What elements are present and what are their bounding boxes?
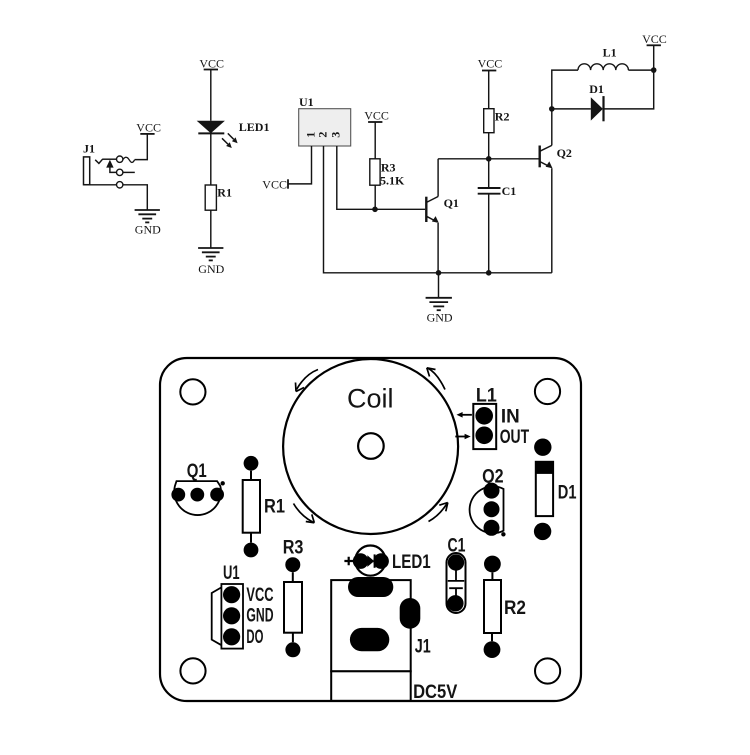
wire <box>488 71 490 109</box>
mounting hole top-right <box>535 379 560 404</box>
wire <box>488 133 490 159</box>
wire <box>552 108 591 110</box>
power VCC (R2) <box>478 57 503 71</box>
wire <box>552 70 578 109</box>
wire <box>120 171 135 173</box>
IC U1 <box>299 95 351 146</box>
wire <box>210 210 212 248</box>
svg-text:D1: D1 <box>558 482 577 503</box>
svg-text:GND: GND <box>246 606 273 627</box>
svg-text:R3: R3 <box>283 537 304 558</box>
svg-text:OUT: OUT <box>500 427 530 448</box>
power VCC (LED1) <box>199 56 224 70</box>
svg-text:LED1: LED1 <box>239 120 270 134</box>
wire <box>604 70 654 109</box>
wire <box>628 69 653 71</box>
ground GND (J1) <box>135 210 162 236</box>
wire <box>437 223 439 273</box>
wire <box>135 134 148 160</box>
svg-text:VCC: VCC <box>364 109 389 123</box>
wire <box>488 195 490 273</box>
LED LED1 (PCB) <box>344 546 431 576</box>
svg-text:2: 2 <box>316 132 330 138</box>
svg-text:R2: R2 <box>504 598 526 619</box>
svg-text:J1: J1 <box>83 142 95 156</box>
svg-text:VCC: VCC <box>136 120 161 134</box>
node junction <box>436 270 442 276</box>
svg-text:Q1: Q1 <box>444 196 459 210</box>
ground GND (main) <box>426 298 453 325</box>
wire <box>653 45 655 70</box>
svg-text:VCC: VCC <box>199 56 224 70</box>
node junction <box>549 106 555 112</box>
svg-text:Q2: Q2 <box>557 146 572 160</box>
wire <box>551 168 553 273</box>
arrow OUT <box>455 434 470 440</box>
resistor R3 (PCB) <box>283 537 304 657</box>
ground GND (LED1) <box>198 248 225 276</box>
svg-text:Coil: Coil <box>347 384 394 414</box>
wire <box>437 159 439 197</box>
svg-text:IN: IN <box>501 407 520 428</box>
wire <box>438 158 539 160</box>
transistor Q1 (PCB) <box>171 461 224 515</box>
capacitor C1 <box>478 184 517 198</box>
svg-text:R2: R2 <box>495 109 510 123</box>
diode D1 <box>589 82 604 121</box>
wire <box>84 185 148 210</box>
svg-text:GND: GND <box>427 310 453 324</box>
resistor R3 <box>370 159 396 185</box>
power VCC (R3) <box>364 109 389 123</box>
svg-text:DC5V: DC5V <box>413 682 457 703</box>
wire <box>374 122 376 159</box>
mounting hole top-left <box>180 379 205 404</box>
wire <box>488 159 490 187</box>
resistor R2 <box>484 109 510 133</box>
capacitor C1 (PCB) <box>447 535 466 613</box>
arrow coil bottom-right <box>429 503 448 522</box>
wire <box>210 70 212 121</box>
PCB board outline <box>160 358 581 701</box>
transistor Q2 (PCB) <box>470 466 506 536</box>
mounting hole bottom-left <box>180 658 205 683</box>
wire <box>551 109 553 145</box>
wire <box>324 146 552 273</box>
svg-text:VCC: VCC <box>642 32 667 46</box>
transistor Q2 <box>540 145 572 168</box>
wire <box>288 146 312 184</box>
power VCC (L1) <box>642 32 667 46</box>
svg-text:GND: GND <box>135 222 161 236</box>
power VCC (U1 pin1) <box>262 177 288 191</box>
svg-text:DO: DO <box>246 627 263 648</box>
resistor R2 (PCB) <box>484 556 526 658</box>
svg-text:3: 3 <box>329 132 343 138</box>
connector L1 (PCB) <box>473 386 497 450</box>
svg-text:VCC: VCC <box>478 57 503 71</box>
svg-text:C1: C1 <box>502 184 517 198</box>
svg-text:U1: U1 <box>299 95 314 109</box>
svg-text:R1: R1 <box>264 496 285 517</box>
node junction <box>651 67 657 73</box>
coil center hole <box>358 433 384 459</box>
IC U1 (PCB) <box>212 563 243 649</box>
svg-text:D1: D1 <box>589 82 604 96</box>
connector J1 (PCB) <box>331 577 431 701</box>
svg-text:L1: L1 <box>603 46 617 60</box>
power VCC (J1) <box>136 120 161 134</box>
svg-text:VCC: VCC <box>246 585 273 606</box>
diode D1 (PCB) <box>534 439 577 541</box>
svg-text:VCC: VCC <box>262 177 287 191</box>
wire <box>438 273 440 298</box>
wire <box>210 133 212 185</box>
wire <box>374 185 376 209</box>
arrow coil top-left <box>296 370 319 392</box>
LED LED1 <box>197 120 270 148</box>
arrow coil top-right <box>427 368 445 390</box>
node junction <box>372 207 378 213</box>
svg-text:GND: GND <box>198 262 224 276</box>
svg-text:R1: R1 <box>217 186 232 200</box>
coil outline <box>283 359 458 534</box>
resistor R1 <box>205 185 232 210</box>
svg-text:5.1K: 5.1K <box>380 173 405 187</box>
node junction <box>486 270 492 276</box>
resistor R1 (PCB) <box>243 456 286 557</box>
svg-text:J1: J1 <box>415 636 431 657</box>
node junction <box>486 156 492 162</box>
svg-text:U1: U1 <box>223 563 240 584</box>
mounting hole bottom-right <box>535 658 560 683</box>
arrow IN <box>457 412 472 418</box>
inductor L1 <box>578 46 628 71</box>
arrow coil bottom-left <box>294 504 315 523</box>
transistor Q1 <box>426 196 459 223</box>
connector J1 <box>83 142 135 188</box>
svg-text:Q1: Q1 <box>187 461 207 482</box>
svg-text:LED1: LED1 <box>392 552 431 573</box>
wire <box>337 146 425 209</box>
